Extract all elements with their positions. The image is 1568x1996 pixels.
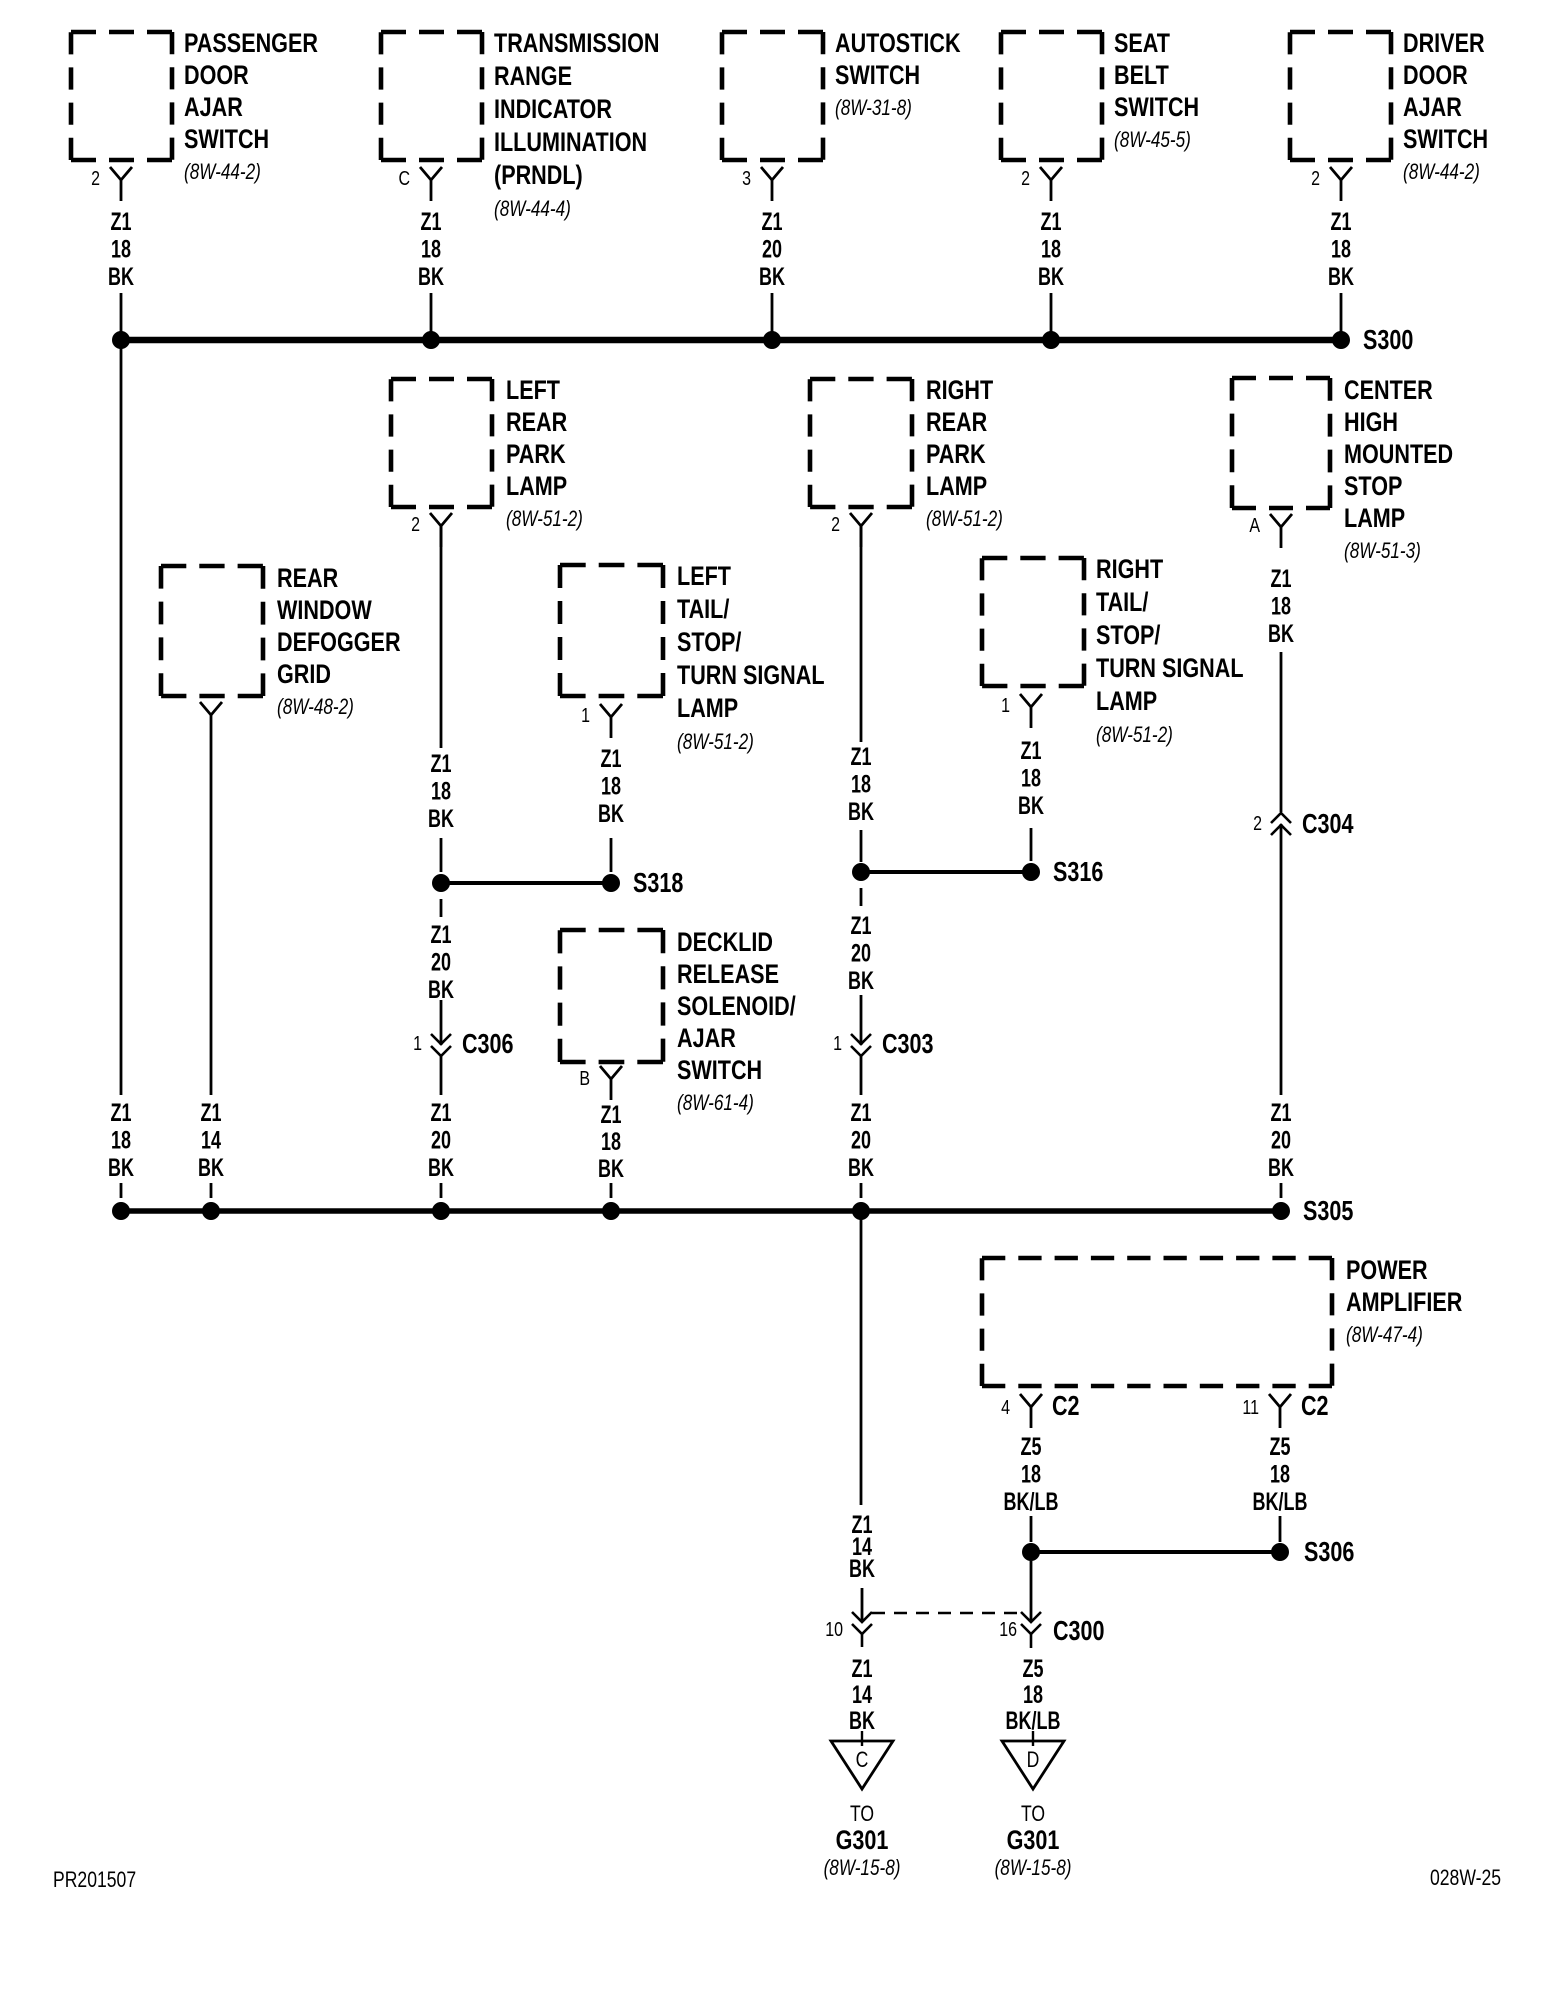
svg-text:S300: S300 [1363, 324, 1413, 355]
svg-text:(8W-47-4): (8W-47-4) [1346, 1323, 1423, 1348]
svg-text:REAR: REAR [277, 564, 338, 594]
svg-text:1: 1 [581, 704, 590, 726]
svg-text:C306: C306 [462, 1028, 514, 1059]
svg-text:LAMP: LAMP [926, 472, 987, 502]
svg-text:(8W-61-4): (8W-61-4) [677, 1091, 754, 1116]
svg-text:BK: BK [848, 1153, 874, 1182]
svg-text:LAMP: LAMP [1344, 504, 1405, 534]
svg-text:DEFOGGER: DEFOGGER [277, 628, 401, 658]
svg-text:(8W-31-8): (8W-31-8) [835, 96, 912, 121]
svg-text:LAMP: LAMP [677, 694, 738, 724]
center high mounted stop lamp [1232, 376, 1330, 381]
svg-text:GRID: GRID [277, 660, 331, 690]
svg-text:BK: BK [849, 1554, 875, 1583]
svg-text:RANGE: RANGE [494, 62, 572, 92]
junction dot S318 right [603, 875, 620, 892]
svg-text:A: A [1249, 514, 1260, 536]
svg-text:(8W-48-2): (8W-48-2) [277, 695, 354, 720]
svg-text:STOP/: STOP/ [1096, 621, 1161, 651]
svg-text:BK: BK [108, 262, 134, 291]
svg-text:AJAR: AJAR [1403, 93, 1462, 123]
svg-text:Z1: Z1 [762, 207, 783, 236]
wire splice bus S305 [121, 1208, 1281, 1214]
svg-text:LAMP: LAMP [1096, 687, 1157, 717]
svg-text:DOOR: DOOR [184, 61, 249, 91]
svg-text:SWITCH: SWITCH [835, 61, 920, 91]
svg-text:(8W-51-2): (8W-51-2) [1096, 723, 1173, 748]
wire defogger column down to S305 [210, 736, 213, 1095]
junction dot on S300 at x=121 [113, 332, 130, 349]
junction dot on S305 at x=611 [603, 1203, 620, 1220]
svg-text:Z1: Z1 [431, 1098, 452, 1127]
svg-text:2: 2 [1311, 167, 1320, 189]
right rear park lamp [810, 377, 912, 382]
transmission range indicator [381, 30, 482, 35]
svg-text:18: 18 [421, 235, 441, 264]
left rear park lamp [391, 377, 492, 382]
power amplifier [982, 1256, 1332, 1261]
svg-text:AJAR: AJAR [184, 93, 243, 123]
svg-text:1: 1 [1001, 694, 1010, 716]
svg-text:STOP/: STOP/ [677, 628, 742, 658]
svg-text:SWITCH: SWITCH [1114, 93, 1199, 123]
junction dot S306 right [1272, 1544, 1289, 1561]
svg-text:2: 2 [91, 167, 100, 189]
svg-text:Z1: Z1 [851, 911, 872, 940]
svg-text:POWER: POWER [1346, 1256, 1428, 1286]
wire passenger-switch column down to S305 [120, 348, 123, 1095]
svg-text:BK: BK [198, 1153, 224, 1182]
junction dot on S300 at x=1051 [1043, 332, 1060, 349]
svg-text:20: 20 [851, 1126, 871, 1155]
svg-text:18: 18 [111, 1126, 131, 1155]
svg-text:Z1: Z1 [1041, 207, 1062, 236]
junction dot on S305 at x=121 [113, 1203, 130, 1220]
svg-text:BK: BK [1268, 619, 1294, 648]
connector of defogger grid [200, 702, 222, 715]
svg-text:S316: S316 [1053, 856, 1103, 887]
svg-text:BK: BK [598, 1154, 624, 1183]
svg-text:C304: C304 [1302, 808, 1354, 839]
junction dot on S305 at x=211 [203, 1203, 220, 1220]
svg-text:20: 20 [762, 235, 782, 264]
svg-text:BK: BK [848, 966, 874, 995]
junction dot S318 left [433, 875, 450, 892]
svg-text:Z1: Z1 [421, 207, 442, 236]
svg-text:G301: G301 [1007, 1826, 1060, 1856]
svg-text:Z5: Z5 [1021, 1432, 1042, 1461]
junction dot S316 left [853, 864, 870, 881]
svg-text:2: 2 [1253, 812, 1262, 834]
svg-text:Z1: Z1 [1271, 1098, 1292, 1127]
left tail/stop/turn signal lamp [560, 563, 663, 568]
svg-text:SWITCH: SWITCH [1403, 125, 1488, 155]
svg-text:BK/LB: BK/LB [1253, 1487, 1308, 1516]
svg-text:TURN SIGNAL: TURN SIGNAL [1096, 654, 1244, 684]
svg-text:BK: BK [1038, 262, 1064, 291]
svg-text:C: C [398, 167, 410, 189]
svg-text:Z1: Z1 [1331, 207, 1352, 236]
svg-text:RIGHT: RIGHT [1096, 555, 1163, 585]
svg-text:Z1: Z1 [1271, 564, 1292, 593]
svg-text:TAIL/: TAIL/ [1096, 588, 1149, 618]
svg-text:18: 18 [1270, 1460, 1290, 1489]
svg-text:(8W-51-2): (8W-51-2) [677, 730, 754, 755]
passenger door ajar switch [71, 30, 172, 35]
svg-text:CENTER: CENTER [1344, 376, 1433, 406]
svg-text:3: 3 [742, 167, 751, 189]
svg-text:LAMP: LAMP [506, 472, 567, 502]
svg-text:BK: BK [418, 262, 444, 291]
svg-text:LEFT: LEFT [506, 376, 560, 406]
ground triangle C [831, 1741, 893, 1789]
svg-text:028W-25: 028W-25 [1430, 1866, 1501, 1890]
svg-text:BK: BK [848, 797, 874, 826]
wire below S316 [860, 888, 863, 906]
svg-text:TURN SIGNAL: TURN SIGNAL [677, 661, 825, 691]
svg-text:(8W-51-2): (8W-51-2) [926, 507, 1003, 532]
svg-text:REAR: REAR [506, 408, 567, 438]
svg-text:(8W-15-8): (8W-15-8) [824, 1856, 901, 1881]
svg-text:Z1: Z1 [431, 920, 452, 949]
svg-text:14: 14 [201, 1126, 221, 1155]
splice S306 line [1031, 1550, 1280, 1554]
wire left park lamp down [440, 526, 443, 748]
svg-text:BK: BK [428, 804, 454, 833]
svg-text:B: B [579, 1067, 590, 1089]
svg-text:1: 1 [413, 1032, 422, 1054]
svg-text:BK/LB: BK/LB [1006, 1706, 1061, 1735]
svg-text:18: 18 [1021, 1460, 1041, 1489]
svg-text:AMPLIFIER: AMPLIFIER [1346, 1288, 1463, 1318]
junction dot on S300 at x=772 [764, 332, 781, 349]
svg-text:PASSENGER: PASSENGER [184, 29, 318, 59]
svg-text:DRIVER: DRIVER [1403, 29, 1485, 59]
svg-text:AJAR: AJAR [677, 1024, 736, 1054]
svg-text:18: 18 [1021, 764, 1041, 793]
junction dot S316 right [1023, 864, 1040, 881]
wire S306 down to C300 [1030, 1561, 1033, 1620]
svg-text:11: 11 [1242, 1396, 1259, 1418]
svg-text:TRANSMISSION: TRANSMISSION [494, 29, 660, 59]
svg-text:BK: BK [1018, 791, 1044, 820]
svg-text:PARK: PARK [506, 440, 566, 470]
svg-text:20: 20 [1271, 1126, 1291, 1155]
svg-text:(8W-15-8): (8W-15-8) [995, 1856, 1072, 1881]
svg-text:SOLENOID/: SOLENOID/ [677, 992, 796, 1022]
svg-text:18: 18 [1041, 235, 1061, 264]
svg-text:BK: BK [598, 799, 624, 828]
svg-text:STOP: STOP [1344, 472, 1402, 502]
svg-text:Z1: Z1 [431, 749, 452, 778]
svg-text:LEFT: LEFT [677, 562, 731, 592]
svg-text:SWITCH: SWITCH [677, 1056, 762, 1086]
svg-text:BK: BK [1328, 262, 1354, 291]
svg-text:DECKLID: DECKLID [677, 928, 773, 958]
svg-text:BELT: BELT [1114, 61, 1169, 91]
splice S318 line [441, 881, 611, 885]
svg-text:18: 18 [1023, 1680, 1043, 1709]
junction dot on S305 at x=1281 [1273, 1203, 1290, 1220]
svg-text:(8W-44-2): (8W-44-2) [184, 160, 261, 185]
svg-text:18: 18 [601, 772, 621, 801]
svg-text:RIGHT: RIGHT [926, 376, 993, 406]
svg-text:C: C [856, 1748, 869, 1772]
svg-text:Z1: Z1 [601, 1100, 622, 1129]
svg-text:BK: BK [108, 1153, 134, 1182]
svg-text:PR201507: PR201507 [53, 1868, 136, 1892]
svg-text:Z1: Z1 [851, 742, 872, 771]
svg-text:BK: BK [428, 975, 454, 1004]
svg-text:(PRNDL): (PRNDL) [494, 161, 583, 191]
svg-text:2: 2 [411, 513, 420, 535]
svg-text:PARK: PARK [926, 440, 986, 470]
svg-text:C2: C2 [1301, 1390, 1329, 1421]
right tail/stop/turn signal lamp [982, 556, 1084, 561]
svg-text:SEAT: SEAT [1114, 29, 1170, 59]
svg-text:(8W-51-2): (8W-51-2) [506, 507, 583, 532]
wire splice bus S300 [121, 337, 1341, 344]
svg-text:2: 2 [1021, 167, 1030, 189]
svg-text:MOUNTED: MOUNTED [1344, 440, 1453, 470]
svg-text:ILLUMINATION: ILLUMINATION [494, 128, 647, 158]
svg-text:INDICATOR: INDICATOR [494, 95, 612, 125]
svg-text:Z1: Z1 [111, 1098, 132, 1127]
svg-text:16: 16 [999, 1618, 1017, 1640]
svg-text:TO: TO [850, 1802, 874, 1826]
wire below S318 [440, 899, 443, 917]
svg-text:Z1: Z1 [851, 1098, 872, 1127]
svg-text:Z5: Z5 [1270, 1432, 1291, 1461]
rear window defogger grid [161, 564, 263, 569]
svg-text:Z1: Z1 [1021, 736, 1042, 765]
svg-text:D: D [1027, 1748, 1040, 1772]
svg-text:2: 2 [831, 513, 840, 535]
svg-text:20: 20 [431, 948, 451, 977]
svg-text:10: 10 [825, 1618, 843, 1640]
autostick switch [722, 30, 823, 35]
svg-text:Z1: Z1 [201, 1098, 222, 1127]
svg-text:BK: BK [849, 1706, 875, 1735]
svg-text:18: 18 [111, 235, 131, 264]
svg-text:14: 14 [852, 1680, 872, 1709]
svg-text:4: 4 [1001, 1396, 1010, 1418]
svg-text:(8W-51-3): (8W-51-3) [1344, 539, 1421, 564]
seat belt switch [1001, 30, 1102, 35]
splice S316 line [861, 870, 1031, 874]
svg-text:18: 18 [431, 777, 451, 806]
wire Z1/14 main ground column below S305 [860, 1219, 863, 1505]
svg-text:Z5: Z5 [1023, 1654, 1044, 1683]
svg-text:BK: BK [759, 262, 785, 291]
svg-text:18: 18 [1331, 235, 1351, 264]
svg-text:G301: G301 [836, 1826, 889, 1856]
svg-text:Z1: Z1 [601, 744, 622, 773]
svg-text:REAR: REAR [926, 408, 987, 438]
svg-text:BK/LB: BK/LB [1004, 1487, 1059, 1516]
svg-text:18: 18 [851, 770, 871, 799]
svg-text:S318: S318 [633, 867, 683, 898]
svg-text:HIGH: HIGH [1344, 408, 1398, 438]
svg-text:18: 18 [601, 1127, 621, 1156]
driver door ajar switch [1290, 30, 1391, 35]
junction dot on S305 at x=861 [853, 1203, 870, 1220]
svg-text:20: 20 [431, 1126, 451, 1155]
svg-text:RELEASE: RELEASE [677, 960, 779, 990]
svg-text:20: 20 [851, 939, 871, 968]
svg-text:SWITCH: SWITCH [184, 125, 269, 155]
svg-text:WINDOW: WINDOW [277, 596, 373, 626]
svg-text:DOOR: DOOR [1403, 61, 1468, 91]
svg-text:TO: TO [1021, 1802, 1045, 1826]
svg-text:1: 1 [833, 1032, 842, 1054]
svg-text:S306: S306 [1304, 1536, 1354, 1567]
junction dot S306 left [1023, 1544, 1040, 1561]
svg-text:S305: S305 [1303, 1195, 1353, 1226]
decklid release solenoid/ajar switch [560, 928, 663, 933]
svg-text:(8W-44-4): (8W-44-4) [494, 197, 571, 222]
junction dot on S305 at x=441 [433, 1203, 450, 1220]
svg-text:(8W-45-5): (8W-45-5) [1114, 128, 1191, 153]
svg-text:18: 18 [1271, 592, 1291, 621]
dashed connector line into C300 [872, 1612, 1020, 1615]
svg-text:C303: C303 [882, 1028, 934, 1059]
svg-text:Z1: Z1 [111, 207, 132, 236]
svg-text:C300: C300 [1053, 1615, 1105, 1646]
junction dot on S300 at x=1341 [1333, 332, 1350, 349]
svg-text:BK: BK [428, 1153, 454, 1182]
wire right park lamp down [860, 526, 863, 742]
ground triangle D [1002, 1741, 1064, 1789]
wire CHMSL column down to S305 [1280, 824, 1283, 1095]
junction dot on S300 at x=431 [423, 332, 440, 349]
svg-text:BK: BK [1268, 1153, 1294, 1182]
svg-text:C2: C2 [1052, 1390, 1080, 1421]
svg-text:Z1: Z1 [852, 1654, 873, 1683]
svg-text:AUTOSTICK: AUTOSTICK [835, 29, 961, 59]
svg-text:(8W-44-2): (8W-44-2) [1403, 160, 1480, 185]
svg-text:TAIL/: TAIL/ [677, 595, 730, 625]
